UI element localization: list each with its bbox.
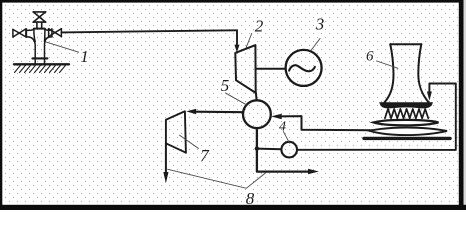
svg-text:6: 6	[366, 49, 374, 65]
svg-text:2: 2	[255, 16, 264, 35]
svg-text:4: 4	[279, 120, 286, 135]
svg-text:5: 5	[221, 76, 230, 95]
svg-text:1: 1	[80, 47, 89, 66]
svg-text:3: 3	[315, 15, 325, 34]
svg-text:8: 8	[246, 189, 255, 208]
